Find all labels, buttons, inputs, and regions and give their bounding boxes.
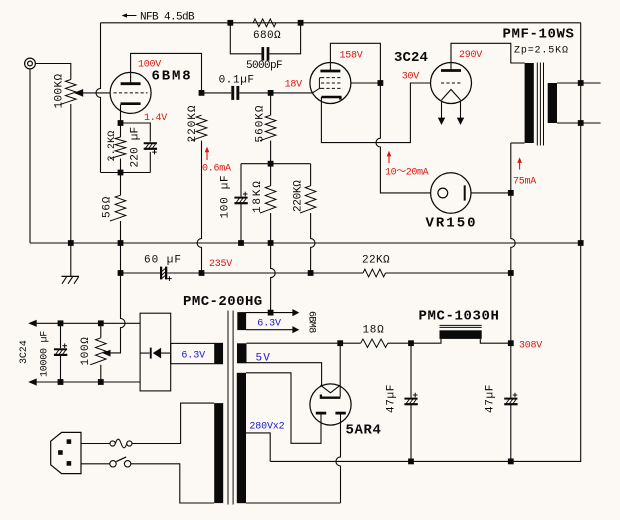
- svg-text:6BM8: 6BM8: [306, 311, 317, 333]
- 3C24 filament: [442, 90, 461, 101]
- wire 3C24 filament leads: [442, 101, 461, 118]
- wire 235V line right segment: [386, 272, 511, 274]
- capacitor 100uF bias filter: [234, 197, 247, 199]
- svg-text:18V: 18V: [285, 80, 303, 91]
- svg-text:10000 µF: 10000 µF: [40, 331, 51, 377]
- svg-text:680Ω: 680Ω: [253, 30, 281, 42]
- wire pot wiper to triode grid: [83, 92, 110, 94]
- wire bias divider node horizontal: [241, 163, 311, 165]
- PMF-10WS secondary winding: [548, 83, 557, 123]
- wire 220uF branch bottom: [149, 152, 151, 173]
- tube V2 3C24 envelope: [431, 63, 472, 104]
- resistor 22K ohm bleeder: [363, 269, 386, 277]
- svg-text:308V: 308V: [519, 341, 542, 352]
- wire 100uF bottom lead: [240, 204, 242, 243]
- wire 5V winding bottom to rectifier filament: [247, 363, 322, 386]
- wire 18K bottom lead: [270, 213, 272, 243]
- svg-text:3C24: 3C24: [394, 50, 428, 66]
- wire pentode cathode to 3C24 grid 30V: [321, 83, 430, 143]
- bias output arrows to 3C24 filament: [28, 320, 37, 327]
- plug pin top: [67, 439, 72, 444]
- wire 220uF branch top: [121, 123, 151, 142]
- svg-text:5AR4: 5AR4: [346, 423, 382, 439]
- resistor 680 ohm feedback: [253, 19, 276, 27]
- label 10-20mA with arrow: [388, 154, 390, 163]
- svg-text:100V: 100V: [138, 60, 161, 71]
- wire VR150 right lead: [471, 192, 511, 194]
- ground symbol: [62, 275, 80, 277]
- wire 10000uF leads: [60, 323, 62, 382]
- wire 560K bottom lead: [270, 141, 272, 164]
- VR150 inner electrode circle: [438, 188, 448, 198]
- svg-text:10～20mA: 10～20mA: [385, 168, 429, 179]
- svg-text:47µF: 47µF: [485, 384, 497, 413]
- svg-text:235V: 235V: [209, 259, 232, 270]
- PMC-200HG 5V winding: [237, 343, 247, 363]
- capacitor 60uF filter: [160, 267, 162, 280]
- capacitor 220uF cathode bypass: [144, 142, 157, 144]
- resistor 2.2K ohm cathode: [110, 137, 126, 159]
- wire 6.3V heater lead upper: [246, 312, 293, 314]
- svg-text:PMC-1030H: PMC-1030H: [419, 309, 500, 325]
- input jack J1: [25, 58, 36, 69]
- potentiometer 100K ohm volume: [60, 80, 76, 105]
- wire NFB top line: [101, 22, 581, 24]
- 3C24 plate: [441, 69, 461, 72]
- PMC-200HG HV winding 280Vx2: [237, 373, 246, 503]
- mains plug: [51, 432, 81, 473]
- wire heater ground with hop over 235V line: [271, 243, 276, 313]
- resistor 18 ohm supply: [361, 339, 388, 347]
- VR150 inner electrode bar: [464, 185, 466, 200]
- wire triode plate to 100V node and down to junction: [131, 53, 202, 93]
- resistor 18K ohm divider: [260, 186, 276, 213]
- triode cathode: [121, 102, 141, 105]
- 5AR4 plate 1: [316, 412, 326, 415]
- PMC-200HG primary winding: [214, 403, 223, 503]
- svg-text:3C24: 3C24: [19, 340, 30, 364]
- resistor 220K ohm divider upper: [300, 186, 316, 213]
- svg-text:100 µF: 100 µF: [220, 175, 232, 219]
- wire ground bus: [30, 242, 581, 244]
- triode plate: [121, 82, 141, 85]
- resistor 220K ohm plate load: [191, 115, 207, 140]
- wire 18K top lead: [270, 164, 272, 186]
- svg-text:Zp=2.5KΩ: Zp=2.5KΩ: [514, 46, 569, 57]
- svg-text:0.6mA: 0.6mA: [202, 164, 231, 175]
- wire 2.2K bottom lead: [120, 159, 122, 173]
- wire B+ down to second filter cap: [510, 343, 512, 461]
- wire input jack ground drop: [29, 69, 31, 243]
- wire NFB vertical with hop over grid wire: [96, 23, 101, 173]
- wire 6.3V heater lead lower: [246, 329, 293, 331]
- svg-text:56Ω: 56Ω: [102, 196, 114, 218]
- pentode plate: [320, 70, 340, 73]
- potentiometer 100 ohm hum balance: [90, 338, 106, 365]
- wire coupling cap left: [202, 92, 232, 94]
- svg-text:NFB 4.5dB: NFB 4.5dB: [140, 12, 195, 24]
- wire B+ vertical 308V rail with hop over ground bus: [511, 143, 515, 343]
- bias diode D1: [150, 348, 152, 359]
- 5AR4 filament: [321, 385, 341, 393]
- wire 560K top lead: [270, 93, 272, 115]
- label 75mA with arrow: [519, 161, 521, 170]
- wire 220K bias resistor down with hop over bus: [310, 164, 312, 186]
- wire bias supply bottom line: [37, 381, 141, 383]
- svg-text:100KΩ: 100KΩ: [54, 73, 66, 108]
- svg-text:6.3V: 6.3V: [257, 319, 281, 330]
- wire ground symbol stem: [70, 243, 72, 276]
- pentode plate lead inside: [329, 70, 331, 71]
- svg-text:560KΩ: 560KΩ: [255, 104, 267, 142]
- svg-text:6.3V: 6.3V: [181, 351, 205, 362]
- svg-text:PMC-200HG: PMC-200HG: [183, 294, 263, 310]
- pentode grid dashes: [321, 77, 341, 79]
- svg-text:47µF: 47µF: [386, 384, 398, 413]
- svg-text:100Ω: 100Ω: [80, 336, 92, 365]
- resistor 56 ohm feedback: [110, 195, 126, 221]
- pentode U1b 6BM8 envelope: [310, 63, 351, 104]
- wire 56 ohm top lead: [120, 173, 122, 196]
- plug pin bottom: [67, 461, 72, 466]
- choke PMC-1030H winding: [440, 330, 482, 339]
- svg-text:5V: 5V: [256, 353, 271, 365]
- svg-text:VR150: VR150: [426, 216, 478, 232]
- wire pentode screen to plate node: [351, 82, 381, 84]
- svg-text:220 µF: 220 µF: [130, 127, 142, 168]
- svg-text:60 µF: 60 µF: [144, 255, 182, 267]
- svg-text:5000pF: 5000pF: [246, 60, 282, 72]
- wire 100 ohm pot leads: [100, 323, 102, 382]
- wire 56 ohm bottom lead: [120, 221, 122, 243]
- wire HV winding top to rectifier plate 1: [246, 373, 321, 444]
- wire pot bottom to ground bus: [70, 104, 72, 243]
- node junctions: [227, 20, 233, 26]
- wire choke right lead: [480, 339, 511, 343]
- choke L1 PMC-1030H core lines: [440, 324, 482, 326]
- wire 47uF-1 leads: [410, 343, 412, 461]
- power transformer T1 PMC-200HG core: [227, 311, 229, 505]
- heater arrows to 6BM8: [292, 309, 299, 316]
- wire output transformer primary bottom: [511, 142, 525, 144]
- triode U1a 6BM8 envelope: [110, 72, 151, 113]
- wire plug to fuse: [81, 443, 110, 445]
- output transformer T2 PMF-10WS primary winding: [525, 63, 534, 143]
- svg-text:30V: 30V: [402, 72, 420, 83]
- 5AR4 plate leads inside: [321, 413, 341, 415]
- bias rectifier module box: [140, 313, 171, 391]
- wire 100uF top lead: [240, 164, 242, 197]
- capacitor 0.1uF coupling: [231, 86, 234, 100]
- label NFB 4.5dB with arrow: [124, 15, 137, 17]
- rectifier V4 5AR4 envelope: [310, 384, 351, 425]
- wire rectifier cathode to supply: [339, 343, 341, 397]
- regulator V3 VR150 envelope: [431, 173, 471, 213]
- resistor 560K ohm grid: [260, 115, 276, 140]
- triode grid dashes: [114, 92, 148, 94]
- svg-text:6BM8: 6BM8: [152, 69, 193, 85]
- wire 235V line middle segment: [167, 272, 363, 274]
- svg-text:0.1µF: 0.1µF: [219, 75, 255, 87]
- capacitor 47uF filter 2: [504, 398, 517, 400]
- wire coupling cap right to pentode grid: [239, 92, 312, 94]
- svg-text:22KΩ: 22KΩ: [362, 255, 390, 267]
- wire cathode feedback node horizontal: [101, 172, 151, 174]
- plug pin middle: [58, 450, 63, 455]
- label 0.6mA with arrow: [206, 150, 208, 160]
- wire supply line 18 ohm to choke: [388, 339, 441, 343]
- svg-text:158V: 158V: [340, 51, 363, 62]
- svg-text:PMF-10WS: PMF-10WS: [503, 27, 575, 43]
- power switch SW1: [110, 461, 116, 467]
- 5AR4 cathode bar: [321, 395, 341, 398]
- wire ground bus to 235V filter link: [120, 243, 122, 273]
- wire input jack to volume pot: [36, 64, 71, 80]
- wire supply line 18 ohm left: [340, 342, 361, 344]
- wire hum pot wiper to ground with hop over bias line: [110, 273, 125, 353]
- capacitor 5000pF feedback loop wires: [230, 23, 300, 54]
- svg-text:18KΩ: 18KΩ: [252, 179, 264, 213]
- 3C24 grid dashes: [441, 82, 461, 84]
- pentode cathode: [321, 97, 340, 100]
- PMF-10WS core: [536, 63, 538, 146]
- capacitor 5000pF: [261, 47, 264, 61]
- 5AR4 plate 2: [335, 412, 345, 415]
- wire mains lead B: [131, 464, 214, 503]
- svg-text:290V: 290V: [459, 50, 482, 61]
- fuse F1: [110, 441, 115, 446]
- capacitor 47uF filter 1: [404, 398, 417, 400]
- wire 5V winding top to B+ takeoff: [247, 342, 341, 344]
- wire bias diode leads: [140, 352, 171, 354]
- wire HV winding bottom to rectifier plate 2 with hop over rail: [246, 414, 341, 503]
- PMC-200HG bias winding with outline: [171, 343, 223, 363]
- pentode grid bracket and entry: [312, 78, 321, 93]
- wire 220K plate load down with hop over ground bus to 235V: [197, 141, 201, 273]
- wire speaker output bottom: [557, 122, 601, 124]
- wire bias supply top line: [37, 322, 141, 324]
- wire triode cathode lead: [120, 105, 122, 123]
- wire 235V line left segment to 60uF: [121, 272, 161, 274]
- capacitor 10000uF bias filter: [54, 348, 67, 350]
- wire mains lead A: [132, 403, 214, 443]
- svg-text:220KΩ: 220KΩ: [293, 180, 305, 212]
- wire 3C24 plate 290V to output transformer: [451, 43, 525, 69]
- wire right return line and bottom rail: [270, 23, 581, 462]
- svg-text:1.4V: 1.4V: [144, 113, 167, 124]
- wire pentode plate 158V to VR150 with hop: [330, 43, 430, 193]
- wire speaker output top: [557, 82, 601, 84]
- svg-text:18Ω: 18Ω: [363, 325, 385, 337]
- 3C24 filament arrows to bias supply: [438, 118, 445, 125]
- svg-text:280Vx2: 280Vx2: [249, 422, 284, 433]
- PMC-200HG 6.3V heater winding: [237, 312, 246, 330]
- svg-text:75mA: 75mA: [513, 177, 536, 188]
- svg-text:220KΩ: 220KΩ: [187, 104, 199, 142]
- wire plug to switch: [81, 463, 110, 465]
- wire 2.2K top lead: [120, 123, 122, 137]
- wire HV center tap to rail: [246, 433, 270, 462]
- svg-text:2.2KΩ: 2.2KΩ: [107, 130, 118, 161]
